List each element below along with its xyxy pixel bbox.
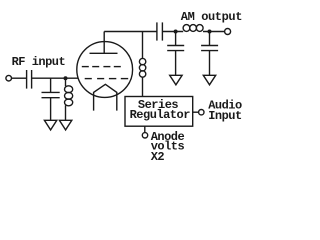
capacitor C3 (series, output): [156, 22, 158, 40]
wire box to anode volts terminal: [144, 126, 146, 132]
wire C3 to L2: [163, 31, 184, 33]
capacitor C1 (series, RF input): [26, 70, 28, 89]
wire HT tee down to L3: [142, 32, 144, 59]
tube anode lead: [103, 32, 105, 54]
terminal J4 anode volts: [142, 133, 147, 138]
ground (below L1): [59, 120, 71, 130]
capacitor C5 (shunt to ground): [201, 45, 218, 47]
wire J1 to C1: [12, 77, 27, 79]
tube filament/cathode: [94, 84, 117, 110]
terminal J1 RF input: [6, 75, 12, 81]
wire L2 to output terminal: [203, 31, 224, 33]
vacuum tube V1 envelope: [77, 42, 133, 98]
terminal J2 AM output: [225, 29, 231, 35]
svg-text:AM output: AM output: [181, 10, 242, 24]
node B junction dot: [174, 30, 178, 34]
wire L1 to ground: [65, 105, 67, 120]
inductor L3 (choke to regulator): [139, 58, 145, 64]
wire node B down to C4: [175, 32, 177, 46]
wire anode to HT rail: [104, 31, 157, 33]
wire C5 to ground: [209, 51, 211, 75]
inductor L2 (output filter): [183, 25, 190, 32]
tube anode plate: [90, 52, 118, 54]
wire C4 to ground: [175, 51, 177, 75]
wire node C down to C5: [209, 32, 211, 46]
wire box to audio terminal: [193, 111, 199, 113]
inductor L1 (grid coil to ground): [65, 86, 73, 93]
wire tee down to C2: [50, 78, 52, 92]
svg-text:X2: X2: [151, 150, 165, 164]
terminal J3 audio input: [199, 110, 204, 115]
ground (below C2): [44, 120, 56, 130]
wire C1 to tube grid: [32, 77, 78, 79]
svg-text:Input: Input: [208, 109, 242, 123]
svg-text:Regulator: Regulator: [130, 108, 191, 122]
wire L3 to regulator box: [142, 77, 144, 96]
capacitor C4 (shunt to ground): [167, 45, 184, 47]
ground (below C4): [170, 75, 182, 85]
tube grid 2 (dashed): [85, 78, 129, 80]
tube grid 1 (dashed): [82, 66, 121, 68]
wire node A down to L1: [65, 78, 67, 86]
wire C2 to ground: [50, 98, 52, 120]
capacitor C2 (shunt to ground): [42, 91, 60, 93]
node A junction dot: [64, 76, 68, 80]
node C junction dot: [208, 30, 212, 34]
svg-text:RF input: RF input: [12, 55, 66, 69]
series regulator U1 box: [125, 97, 193, 127]
ground (below C5): [203, 75, 215, 85]
